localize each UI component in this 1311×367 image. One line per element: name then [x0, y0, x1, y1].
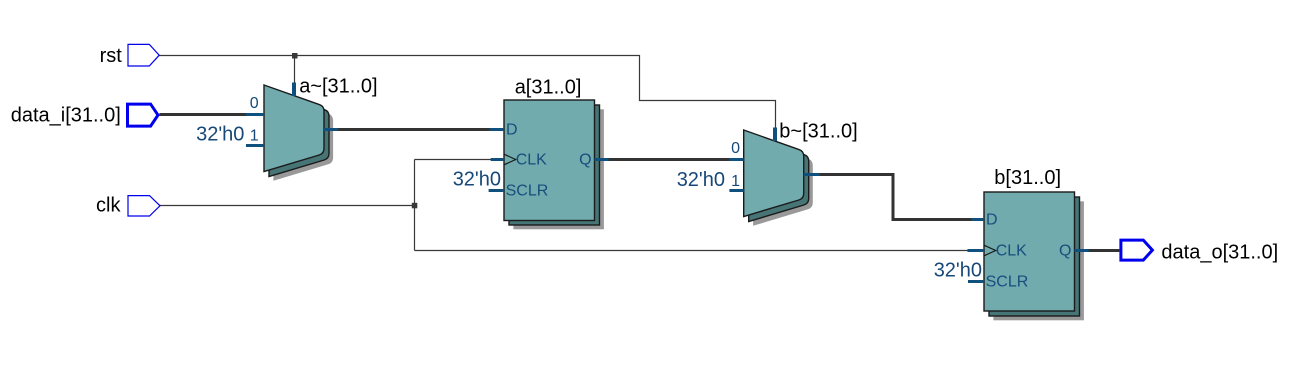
svg-text:Q: Q — [1059, 242, 1071, 259]
port data_o[31..0] output — [1121, 240, 1153, 260]
svg-text:D: D — [506, 122, 518, 139]
wire b~ out to b D bus — [818, 175, 973, 220]
pin b D stub — [971, 218, 984, 221]
pin b~ select stub — [773, 128, 777, 142]
svg-text:CLK: CLK — [516, 152, 547, 169]
register b[31..0] — [984, 192, 1084, 320]
pin a CLK edge triangle — [504, 154, 516, 165]
svg-text:1: 1 — [731, 173, 740, 190]
mux a~[31..0] — [264, 85, 333, 181]
pin a~ select stub — [292, 83, 296, 97]
svg-text:a~[31..0]: a~[31..0] — [299, 75, 377, 97]
wire b Q to data_o bus — [1086, 249, 1119, 252]
pin b~ in0 stub — [729, 158, 743, 161]
port data_i[31..0] input — [128, 104, 159, 126]
wire a~ out to a D bus — [336, 128, 491, 131]
svg-text:D: D — [986, 212, 998, 229]
svg-text:32'h0: 32'h0 — [677, 169, 725, 191]
svg-text:CLK: CLK — [996, 242, 1027, 259]
svg-text:b[31..0]: b[31..0] — [994, 167, 1061, 189]
junction rst node — [292, 53, 298, 59]
svg-text:0: 0 — [731, 140, 740, 157]
pin b SCLR stub — [968, 280, 984, 283]
pin b CLK stub — [968, 249, 985, 252]
svg-text:data_i[31..0]: data_i[31..0] — [11, 104, 121, 126]
pin a CLK stub — [491, 158, 504, 161]
pin b~ in1 stub — [729, 189, 743, 192]
svg-text:rst: rst — [100, 45, 123, 67]
pin a Q stub — [595, 158, 609, 161]
pin a SCLR stub — [489, 189, 504, 192]
pin b Q stub — [1075, 249, 1089, 252]
svg-text:32'h0: 32'h0 — [934, 259, 982, 281]
svg-text:data_o[31..0]: data_o[31..0] — [1161, 242, 1278, 264]
pin b~ out stub — [804, 173, 820, 176]
pin a~ in1 stub — [246, 144, 264, 147]
svg-text:1: 1 — [250, 127, 259, 144]
pin a~ out stub — [324, 128, 338, 131]
register a[31..0] — [504, 100, 604, 229]
wire a Q to b~ bus — [606, 158, 731, 161]
svg-text:SCLR: SCLR — [506, 183, 549, 200]
mux b~[31..0] — [744, 130, 813, 226]
svg-text:a[31..0]: a[31..0] — [515, 77, 582, 99]
svg-text:Q: Q — [579, 152, 591, 169]
pin b CLK edge triangle — [984, 245, 996, 256]
wire rst net — [159, 56, 776, 132]
svg-text:32'h0: 32'h0 — [196, 123, 244, 145]
port rst input — [128, 44, 159, 66]
wire clk net — [160, 160, 968, 251]
port clk input — [128, 196, 160, 216]
svg-text:b~[31..0]: b~[31..0] — [779, 120, 857, 142]
pin a~ in0 stub — [246, 113, 264, 116]
svg-text:32'h0: 32'h0 — [453, 169, 501, 191]
pin a D stub — [490, 128, 505, 131]
wire data_i bus — [159, 113, 250, 116]
svg-text:0: 0 — [250, 95, 259, 112]
svg-text:clk: clk — [96, 194, 121, 216]
junction clk node — [412, 203, 418, 209]
svg-text:SCLR: SCLR — [986, 274, 1029, 291]
